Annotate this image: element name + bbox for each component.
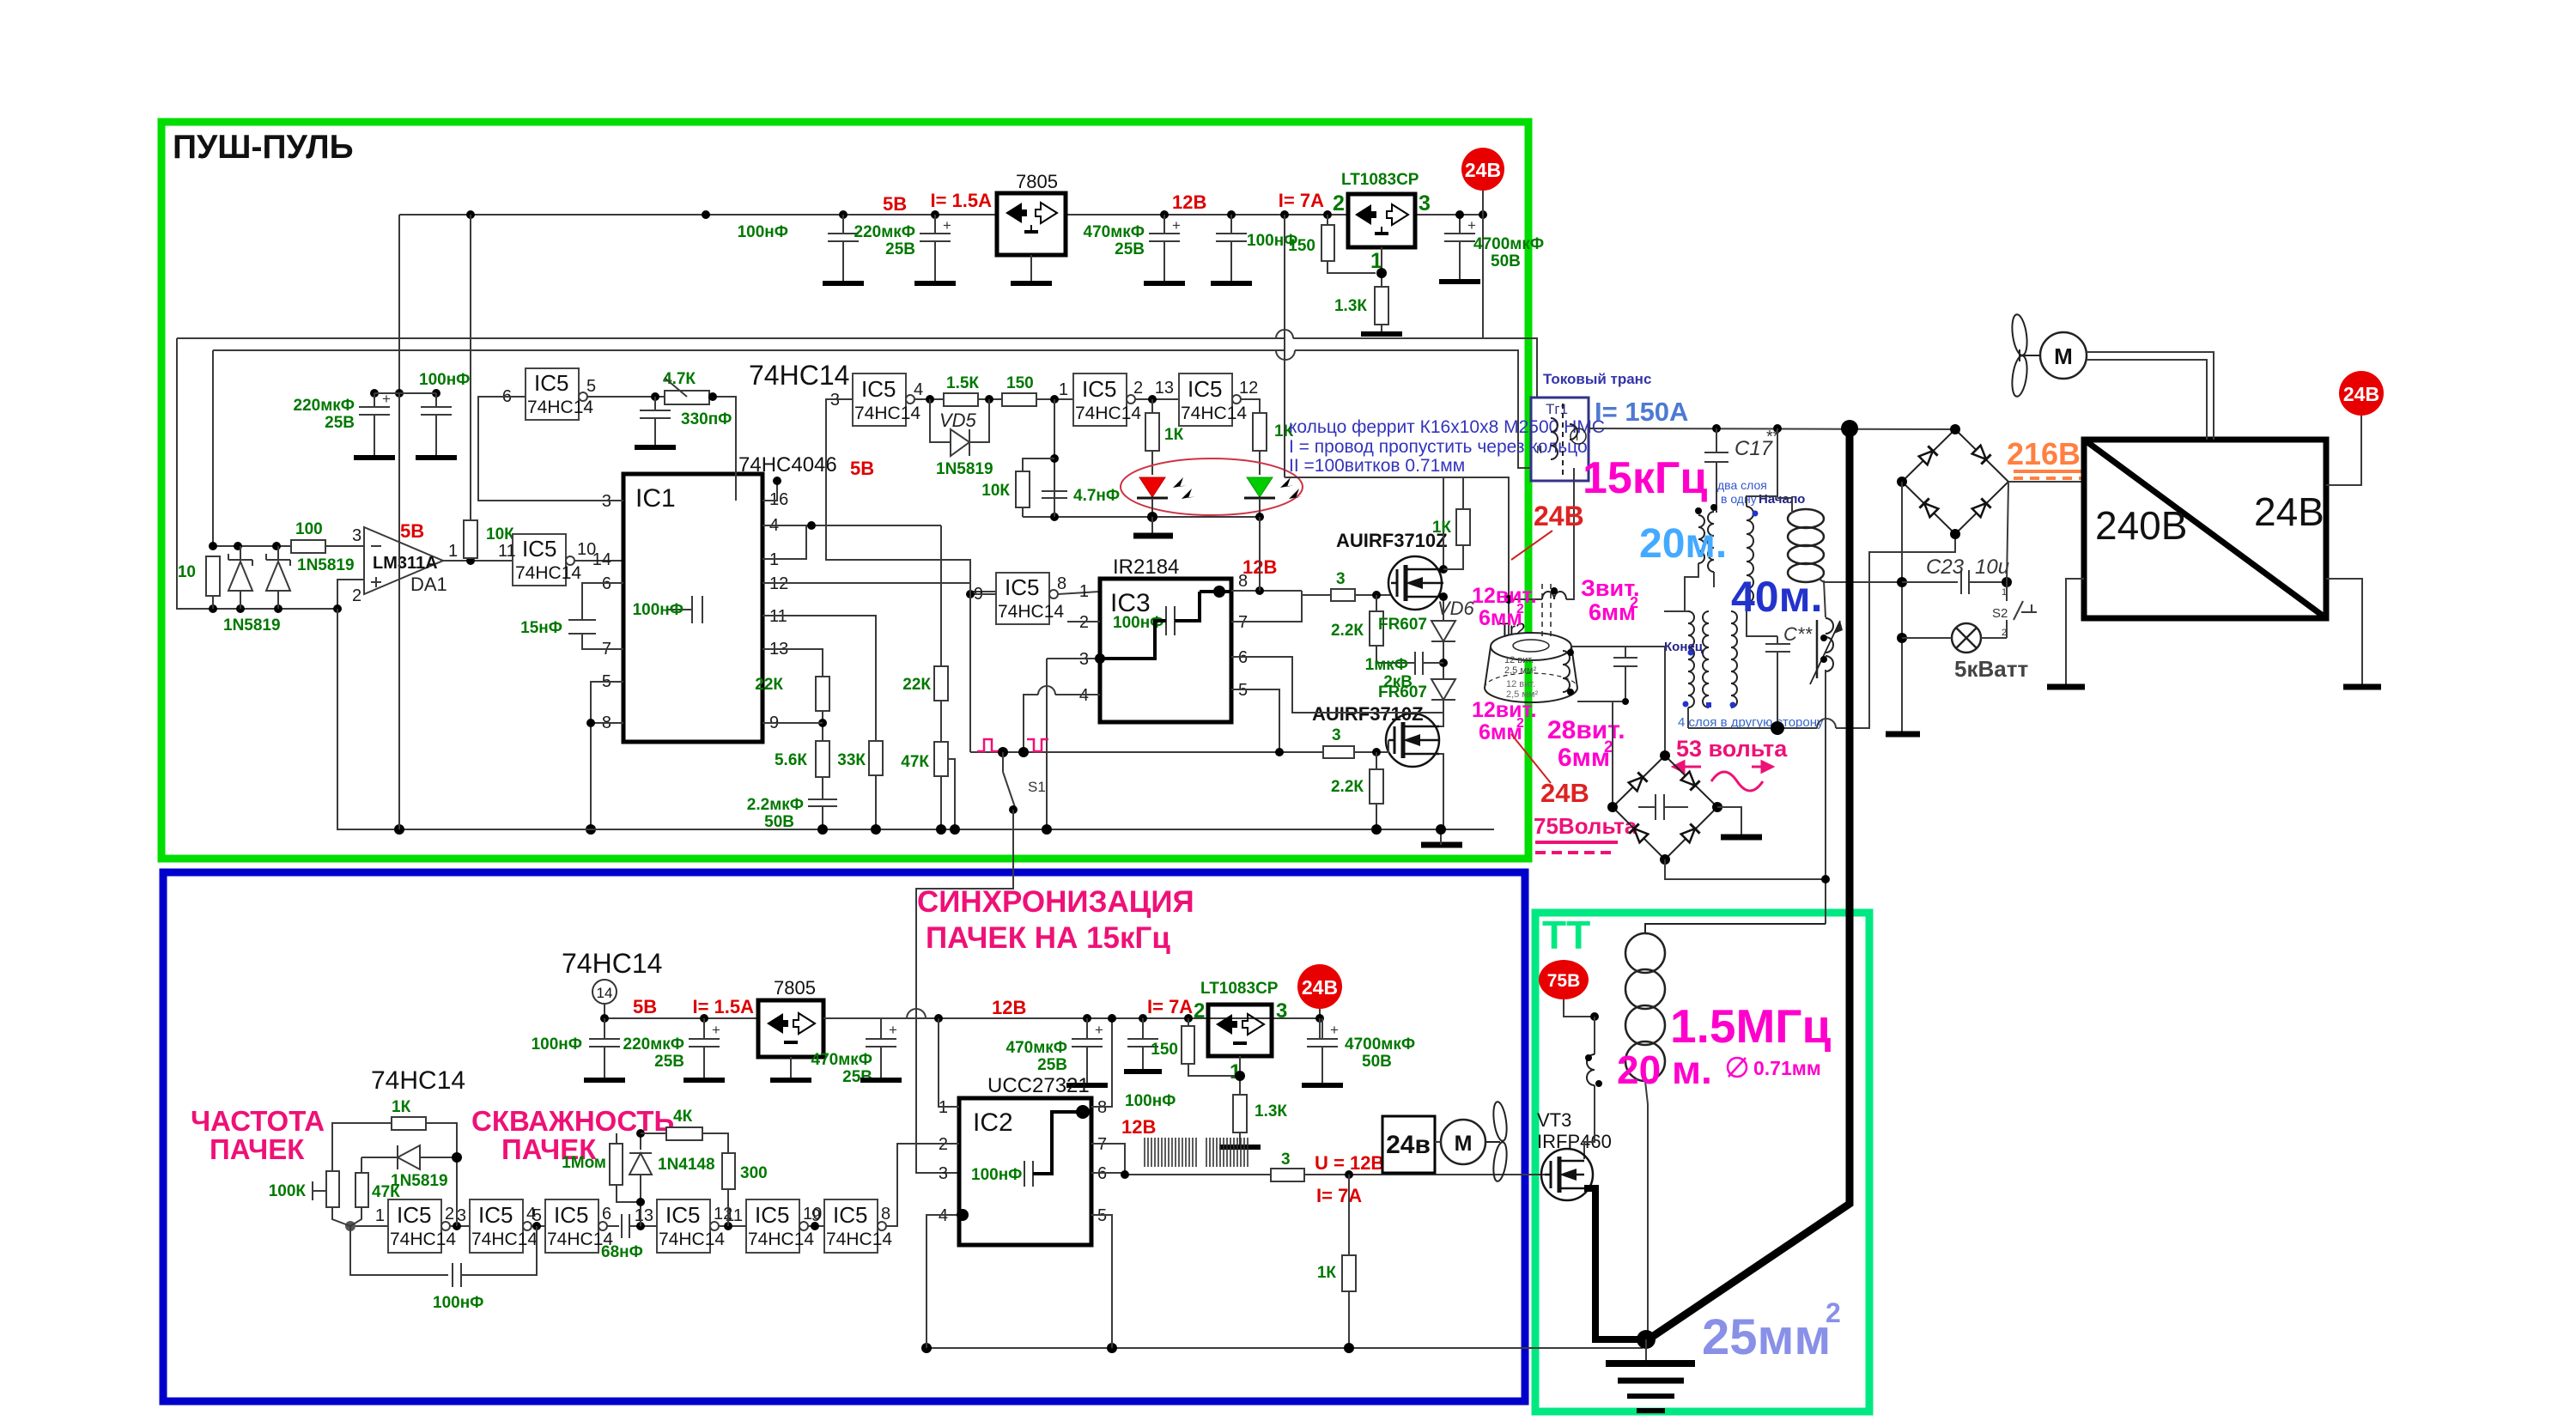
svg-text:53 вольта: 53 вольта [1676,736,1788,762]
wire bridge right leg [2007,482,2008,601]
svg-text:M: M [1455,1132,1473,1156]
resistor 2.2K (upper) [1331,595,1383,663]
svg-text:150: 150 [1288,237,1315,255]
svg-text:74HC14: 74HC14 [826,1230,892,1249]
feedback bus wire B [213,349,1285,351]
svg-text:33К: 33К [837,751,866,769]
inverter IC5 E [725,1199,822,1253]
svg-text:1N5819: 1N5819 [223,616,281,635]
capacitor 470uF 25V (sync b) [1006,1014,1103,1085]
resistor 10K [464,520,514,558]
wire IC3 pin4 with hop [1055,694,1100,695]
inverter IC5 A [375,1199,456,1253]
svg-text:4: 4 [914,380,923,399]
svg-text:IC5: IC5 [755,1202,789,1228]
wire IC5 to IC1 pin14 [574,560,623,562]
svg-text:20 м.: 20 м. [1617,1047,1712,1092]
svg-text:100: 100 [295,520,323,538]
inverter IC5 B [457,1199,538,1253]
main resonant coil [1625,924,1826,1081]
svg-text:IC5: IC5 [665,1202,700,1228]
svg-text:74HC4046: 74HC4046 [738,453,837,477]
svg-text:25мм: 25мм [1702,1309,1831,1365]
svg-text:240В: 240В [2095,503,2187,548]
burst pulse train [1145,1138,1196,1167]
pulse symbol (negative) [1027,739,1048,751]
wire RC node [1054,399,1055,517]
capacitor 470uF 25V (sync a) [811,1018,897,1086]
svg-text:DA1: DA1 [410,574,447,595]
svg-text:2.2К: 2.2К [1331,778,1364,796]
wire bridge to DC box [2008,481,2084,483]
wire winding start [1747,428,1777,507]
LED red VD [1137,477,1195,517]
svg-text:0.71мм: 0.71мм [1753,1057,1821,1079]
svg-text:1N5819: 1N5819 [391,1172,448,1190]
resistor 3 (output) [1271,1151,1304,1181]
wire IC2 pin5 [1091,1215,1112,1348]
svg-text:S2: S2 [1992,606,2008,621]
svg-text:5.6К: 5.6К [775,751,807,769]
ground (bridge left) [1886,732,1920,738]
svg-text:1К: 1К [1164,426,1184,444]
resistor 33K [762,616,883,829]
LED indicator ellipse [1121,458,1303,515]
driver IC2 UCC27321 [959,1074,1091,1245]
capacitor C** [1765,623,1813,728]
capacitor 15nF [520,583,623,649]
ground (output stage) [1421,842,1462,848]
wire IC2 pin4 [927,1215,959,1348]
current transformer Tr1 [1531,398,1589,481]
wire IC1 pin12 [762,582,970,584]
wire IC5(8) to IC3 pin1 [1058,592,1100,594]
svg-text:220мкФ: 220мкФ [294,397,355,415]
transistor VT3 IRFP460 [1541,1149,1593,1200]
svg-text:220мкФ: 220мкФ [623,1035,684,1054]
svg-text:24В: 24В [1534,501,1584,531]
wire bus B to Tr1 [1295,350,1531,468]
svg-text:10u: 10u [1975,556,2009,579]
rectifier bridge (mains) [1897,424,2008,539]
capacitor 1uF 2kV [1365,652,1443,691]
svg-text:74HC14: 74HC14 [748,1230,814,1249]
svg-text:1: 1 [448,542,458,561]
wire LED cathode rail [1023,516,1260,518]
5V power rail wire [399,214,997,216]
svg-text:14: 14 [597,985,613,1001]
diode 1N4148 [629,1129,715,1226]
svg-text:I= 1.5A: I= 1.5A [692,996,754,1017]
capacitor 100nF (12V rail) [1216,215,1297,283]
wire vertical feed [969,583,971,752]
inverter IC5 (6-5) [502,368,596,420]
svg-text:12 вит.: 12 вит. [1506,679,1535,689]
ground (1.3K) [1361,331,1402,337]
svg-text:2: 2 [445,1205,454,1224]
wire IC3 pin7 to gate Q1 [1231,595,1331,622]
wire IC5(12) to green LED [1241,399,1260,413]
arrow left (53V) [1674,762,1701,772]
wire 1.5K to 150 [978,398,1002,400]
svg-text:24В: 24В [1465,159,1501,181]
svg-text:IC5: IC5 [522,536,556,562]
capacitor 4700uF 50V (sync) [1307,1018,1415,1085]
switch S2 [1992,587,2037,638]
thick HF bus [1649,428,1850,1339]
wire IC3 pin6 [1231,657,1443,713]
svg-text:ПУШ-ПУЛЬ: ПУШ-ПУЛЬ [173,129,354,166]
svg-text:1N5819: 1N5819 [297,556,355,574]
svg-text:10К: 10К [981,482,1010,500]
wire bus A to Tr1 [1293,338,1537,398]
svg-text:3: 3 [1336,570,1346,588]
svg-text:3: 3 [1276,999,1287,1023]
ground (4700uF) [1439,279,1480,284]
resistor 150 (chain) [1002,374,1036,406]
svg-text:300: 300 [740,1164,768,1182]
fan motor M (sync) [1435,1120,1485,1164]
svg-text:68нФ: 68нФ [601,1243,643,1261]
svg-text:24В: 24В [1540,778,1589,808]
svg-text:1: 1 [1059,380,1068,399]
svg-text:5В: 5В [633,996,657,1017]
wire 24V rail to regulator [1415,214,1483,216]
svg-text:5кВатт: 5кВатт [1954,656,2028,682]
svg-text:74HC14: 74HC14 [1075,404,1141,423]
svg-text:IC5: IC5 [1082,376,1116,402]
svg-text:74HC14: 74HC14 [515,563,581,583]
svg-text:Токовый транс: Токовый транс [1543,371,1651,387]
resistor 4.7K [587,370,736,501]
supply bubble 24V (right) [2339,371,2384,416]
resistor 10 [178,556,220,609]
svg-text:ПАЧЕК: ПАЧЕК [210,1133,305,1165]
wire IC1 pin16 to 5V [762,481,777,501]
svg-text:22К: 22К [755,676,783,694]
resistor 150 (sync) [1151,1018,1240,1076]
svg-text:UCC27321: UCC27321 [987,1074,1090,1097]
wire 5V rail left drop [398,215,400,393]
wire Tr2 bottom to rectifier [1577,701,1625,807]
wire IC2 pin8 [1091,1018,1112,1107]
svg-text:IR2184: IR2184 [1113,556,1179,579]
svg-text:12вит.: 12вит. [1472,698,1537,722]
svg-text:Начало: Начало [1759,492,1805,507]
svg-text:U = 12В: U = 12В [1315,1152,1384,1174]
svg-text:2: 2 [1604,738,1613,756]
svg-text:6мм: 6мм [1558,744,1610,772]
wire IC2 pin7 [1091,1144,1125,1175]
capacitor C17 [1704,428,1780,513]
svg-text:2: 2 [1133,379,1143,398]
svg-text:1N5819: 1N5819 [936,460,993,478]
svg-text:40м.: 40м. [1731,573,1823,621]
box 24V fan supply [1382,1116,1435,1173]
wire left drop B [212,350,214,546]
svg-text:470мкФ: 470мкФ [811,1051,872,1069]
svg-text:6: 6 [602,1205,611,1224]
wire IC3 pin5 [1231,689,1279,752]
svg-text:12: 12 [1239,379,1258,398]
inverter IC5 (9-8) [974,573,1066,624]
wire 150 to IC5(1) [1036,398,1073,400]
inverter IC5 F [811,1199,892,1253]
fan propeller [2010,313,2040,398]
svg-text:2: 2 [1516,602,1524,616]
capacitor 4.7nF [1042,487,1120,505]
svg-text:VT3: VT3 [1537,1109,1571,1131]
switch S1 [998,747,1008,757]
12V rail (sync) [823,1017,1322,1019]
svg-text:8: 8 [881,1205,890,1224]
svg-text:74HC14: 74HC14 [562,948,662,979]
svg-text:1N4148: 1N4148 [658,1156,715,1174]
diode 1N5819 right [266,546,290,609]
sine squiggle (53V) [1711,772,1763,791]
svg-text:100нФ: 100нФ [738,223,788,241]
svg-text:6мм: 6мм [1589,599,1636,625]
label 24V (lower pointer) [1511,734,1551,783]
capacitor 100nF (IC2) [971,1105,1090,1187]
svg-text:ЧАСТОТА: ЧАСТОТА [191,1105,325,1137]
capacitor 100nF (5V rail) [738,215,859,283]
node 24V [1455,210,1464,219]
svg-text:220мкФ: 220мкФ [854,223,915,241]
label wire diameter 0.71mm [1728,1057,1821,1079]
svg-text:12вит.: 12вит. [1472,584,1537,608]
ground (470uF) [1144,281,1185,286]
pulse symbol (positive) [977,739,999,751]
svg-text:Тг1: Тг1 [1546,401,1568,417]
svg-text:I= 150A: I= 150A [1595,397,1688,427]
resistor 3 (gate Q1) [1331,570,1355,601]
svg-text:12 вит.: 12 вит. [1504,655,1534,665]
svg-text:5В: 5В [400,520,424,542]
svg-text:3: 3 [939,1164,948,1183]
node on 5V rail [466,210,475,219]
svg-text:3: 3 [1332,726,1341,744]
svg-text:100нФ: 100нФ [433,1294,483,1312]
svg-text:4.7К: 4.7К [663,370,696,388]
wire Q1 source chain [1443,597,1444,621]
resistor 2.2K (lower) [1331,752,1383,829]
supply bubble 24V (sync) [1297,964,1342,1009]
svg-text:28вит.: 28вит. [1547,716,1625,744]
wire I=150A [1589,428,1955,429]
svg-text:+: + [1172,217,1181,234]
svg-text:20м.: 20м. [1639,521,1727,567]
wire Q2 source to bus [1439,754,1443,829]
svg-text:II: II [1536,443,1542,456]
diode 1N5819 left [228,546,252,609]
svg-text:1.3К: 1.3К [1255,1102,1287,1120]
wire gate Q2 [1354,740,1388,752]
wire 24V bubble to box [2326,416,2361,485]
svg-text:74HC14: 74HC14 [471,1230,538,1249]
capacitor 220uF 25V (comparator supply) [294,391,391,458]
capacitor 330pF [640,397,732,446]
wire gate Q1 [1355,594,1391,596]
svg-text:1К: 1К [392,1098,411,1116]
capacitor 100nF (osc) [350,1226,537,1312]
wire LT1083 pin1 [1381,247,1382,287]
wire cap row [374,392,436,394]
push-pull section frame (green) [161,122,1528,859]
feedback bus wire A [177,337,1285,339]
capacitor 220uF 25V (5V rail) [854,215,951,283]
svg-text:24В: 24В [2343,383,2379,405]
svg-text:S1: S1 [1028,779,1046,795]
wire coil bottom [1645,1081,1648,1336]
wire comparator rail drop [398,393,400,829]
svg-text:10: 10 [178,563,196,581]
winding lower group [1664,611,1737,728]
svg-text:+: + [943,217,951,234]
wire IC3 pin3 [1047,658,1100,659]
inverter IC5 (11-10) [498,534,596,586]
LED green VD [1244,477,1303,517]
svg-text:AUIRF3710Z: AUIRF3710Z [1312,703,1424,725]
resistor 1K (red LED) [1145,399,1184,475]
svg-text:Конец: Конец [1664,640,1704,654]
svg-text:75В: 75В [1547,971,1581,991]
wire Tr2 to rectifier top [1571,647,1665,756]
wire box right leg [2326,579,2362,685]
filter capacitor (bridge2 center) [1638,794,1688,820]
svg-text:100нФ: 100нФ [1125,1092,1176,1110]
svg-text:II =100витков 0.71мм: II =100витков 0.71мм [1289,456,1465,476]
diode FR607 (lower) [1378,679,1455,701]
inverter IC5 (3-4) [830,373,923,426]
svg-text:IC5: IC5 [861,376,896,402]
svg-text:+: + [1095,1022,1103,1038]
svg-text:13: 13 [635,1206,653,1225]
node pin1 [934,1014,943,1023]
main earth node [1637,1330,1656,1349]
wire IC1 pin4 long [762,525,941,526]
svg-text:12В: 12В [992,997,1026,1018]
node on 12V rail [1160,210,1169,219]
resistor 3 (gate Q2) [1323,726,1354,758]
svg-text:IC2: IC2 [973,1108,1013,1137]
wire IC2 pin1 [939,1018,959,1107]
svg-text:50В: 50В [1362,1053,1392,1071]
capacitor 100nF (comparator supply) [419,371,470,458]
svg-text:IC5: IC5 [397,1202,431,1228]
capacitor 470uF 25V [1084,215,1181,283]
Tr2 winding turns (right side) [1563,649,1574,695]
ground (330pF) [635,445,676,450]
svg-text:1К: 1К [1317,1264,1337,1282]
wire IC5 F output to IC2 [886,1144,959,1226]
rail hop (sync wire) [907,1009,926,1018]
wire pin8 drop [1301,591,1303,622]
svg-text:4700мкФ: 4700мкФ [1345,1035,1415,1054]
wire IC5(9) input [970,593,996,595]
input row wire [213,545,291,547]
earth ground (main) [1606,1363,1695,1411]
wire 24V down to output stage [1482,215,1484,338]
diode 1N5819 (osc) [361,1145,462,1190]
wire Q1 drain [1443,477,1444,569]
svg-text:2: 2 [1516,716,1524,731]
svg-text:2: 2 [352,586,361,605]
svg-text:50В: 50В [1491,252,1521,270]
svg-text:25В: 25В [325,414,355,432]
wire chain E-F [808,1225,824,1227]
wire 75V to choke [1564,999,1595,1017]
svg-text:3: 3 [1419,191,1431,216]
capacitor 4700uF 50V [1444,215,1544,282]
resonant capacitor (Tr2) [1613,647,1637,701]
svg-text:I: I [1576,431,1578,443]
svg-text:1.5К: 1.5К [946,374,979,392]
svg-text:470мкФ: 470мкФ [1084,223,1145,241]
svg-text:100нФ: 100нФ [971,1166,1022,1184]
wire IC5(2) to IC5(13) [1135,398,1179,400]
svg-text:+: + [712,1022,720,1038]
ground (220uF) [914,281,956,286]
svg-text:2: 2 [1333,191,1345,216]
svg-text:4700мкФ: 4700мкФ [1473,235,1544,253]
ground (box right) [2343,684,2381,690]
resistor 1K (gate VT3) [1317,1175,1356,1348]
resistor 1K (osc) [332,1098,457,1226]
resistor 4K [641,1108,728,1153]
svg-text:1К: 1К [1432,519,1452,537]
resistor 47K [901,701,955,829]
wire IC1 pin5-8 loop [591,682,623,829]
wire VT3 source (thick) [1584,1188,1644,1339]
wire motor to box (pair) [2087,352,2214,440]
svg-text:14: 14 [592,550,611,569]
IC1 74HC4046 [623,453,837,742]
svg-text:100нФ: 100нФ [633,601,683,619]
fan propeller (sync) [1485,1101,1509,1182]
svg-text:+: + [382,391,391,407]
svg-text:12В: 12В [1172,191,1206,213]
svg-text:IC5: IC5 [478,1202,513,1228]
svg-text:8: 8 [1057,574,1066,593]
svg-text:AUIRF3710Z: AUIRF3710Z [1336,530,1448,551]
primary coil 3 turns [1504,468,1574,604]
rectifier bridge (53V) [1607,750,1722,865]
ground (100nF 5V rail) [823,281,864,286]
bus hop arcs [1276,330,1293,338]
ground (220uF comparator) [354,455,395,460]
big coil (spring) [1777,498,1902,582]
svg-text:LM311A: LM311A [373,554,438,573]
svg-text:LT1083CP: LT1083CP [1200,980,1279,998]
svg-text:7805: 7805 [1016,171,1058,192]
svg-text:1мкФ: 1мкФ [1365,656,1408,674]
capacitor 100nF (IC3 bootstrap) [1100,586,1231,659]
svg-text:74HC14: 74HC14 [854,404,920,423]
wire pin4 to 1.5K [914,398,944,400]
svg-text:15кГц: 15кГц [1583,453,1707,503]
ground (box left) [2047,684,2085,690]
ground (7805) [1011,281,1052,286]
svg-text:I= 1.5A: I= 1.5A [930,190,992,211]
capacitor 100nF (sync 12V) [1127,1014,1158,1072]
wire LT1083 pin1 (sync) [1239,1056,1241,1095]
resistor 5.6K [762,711,829,799]
svg-text:25В: 25В [885,240,915,258]
wire chain D-E [719,1225,746,1227]
svg-text:5В: 5В [850,458,874,479]
svg-text:2: 2 [1826,1297,1841,1328]
